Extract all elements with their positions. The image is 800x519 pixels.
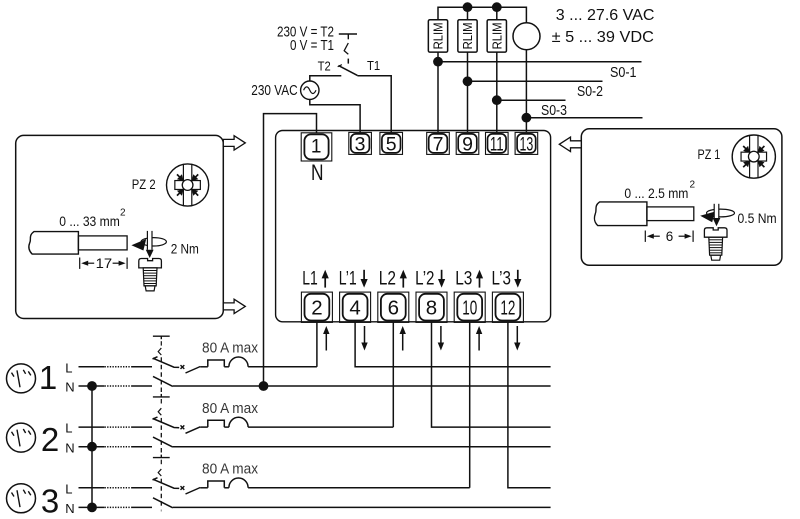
wire: terminal 10 down to L3 [469,322,471,487]
svg-text:8: 8 [426,297,437,320]
svg-text:6: 6 [666,228,674,244]
meter M1 dial [7,364,36,393]
svg-text:S0-2: S0-2 [577,84,603,100]
svg-text:230 VAC: 230 VAC [251,82,297,99]
cable with stripped conductor PZ2 [29,232,79,255]
label L3^ above terminal [455,269,483,290]
breaker linkage bar row1 top [153,335,170,337]
breaker linkage dashes row2 [160,399,162,404]
insert direction arrow PZ2 [131,239,146,251]
svg-text:9: 9 [462,134,473,156]
junction dot S0-1 [433,57,443,67]
terminal screw PZ1 [704,228,727,237]
label L1^ above terminal [302,269,329,290]
circuit breaker Q3 N pole [153,498,173,508]
svg-text:6: 6 [388,297,399,320]
current direction arrow down terminal 8 [440,326,442,344]
svg-text:80 A max: 80 A max [202,462,259,478]
junction dot N2 bus [87,442,97,452]
block arrow PZ2 bottom right [223,299,245,313]
pozidriv bit symbol PZ2 [167,164,209,206]
current direction arrow down terminal 4 [364,326,366,344]
svg-text:3 ... 27.6 VAC: 3 ... 27.6 VAC [556,7,655,24]
label L'3v above terminal [492,269,522,290]
svg-text:L: L [65,421,72,436]
switch S1 actuator dashed link [344,43,348,54]
current direction arrow up terminal 2 [325,333,327,351]
svg-text:0.5 Nm: 0.5 Nm [738,210,777,226]
svg-text:L’2: L’2 [415,269,434,290]
terminal 9 [456,132,479,155]
svg-text:S0-1: S0-1 [610,65,637,81]
label L'1v above terminal [339,269,368,290]
wire: RLIM2 to terminal 9 [467,52,469,133]
wire L3 from breaker to terminal 10 [248,487,470,489]
switch S1 manual actuator bar [339,33,357,35]
svg-text:± 5 ... 39 VDC: ± 5 ... 39 VDC [552,29,654,46]
svg-text:L3: L3 [455,269,472,290]
supply source circle U1 [513,23,540,50]
junction dot N3 bus [87,503,97,513]
AC source G1 230VAC [301,81,319,99]
screwdriver torque symbol PZ1 [707,209,735,217]
svg-text:3: 3 [355,134,366,156]
svg-text:N: N [65,501,74,516]
wire S0-2 line [468,80,603,82]
svg-text:L1: L1 [302,269,318,290]
block arrow PZ1 left [559,137,581,151]
info box PZ1 [581,129,782,265]
wire L row2 from meter [79,426,105,428]
info box PZ2 [16,135,224,318]
junction dot S0-3 [492,95,502,105]
dimension 17 mm strip length [79,258,81,269]
terminal 8 [416,292,447,322]
svg-text:L: L [65,360,72,375]
svg-text:L’1: L’1 [339,269,357,290]
circuit breaker Q1 L pole 80A [153,358,179,367]
svg-text:T1: T1 [367,58,380,73]
wire N3 from breaker to load [173,506,551,508]
terminal 12 [492,292,523,322]
breaker linkage dashes row1 [160,341,162,345]
svg-text:L’3: L’3 [492,269,511,290]
svg-text:T2: T2 [318,59,331,74]
terminal 1 [301,133,332,161]
svg-text:0 ... 2.5 mm: 0 ... 2.5 mm [624,185,688,201]
cable with stripped conductor PZ1 [594,202,647,226]
circuit breaker Q3 L pole 80A [153,479,179,488]
meter device main box [276,131,551,322]
label 0...2.5 mm2 [624,180,695,202]
junction dot top bus / RLIM2 [463,2,473,12]
switch S1 contact lever [338,65,342,67]
wire S0 common line [526,117,642,119]
terminal 7 [427,132,450,155]
svg-text:2 Nm: 2 Nm [171,241,199,256]
svg-text:4: 4 [349,297,360,320]
svg-text:0 V = T1: 0 V = T1 [290,37,334,54]
label L2^ above terminal [379,269,407,290]
svg-text:80 A max: 80 A max [202,401,259,417]
pozidriv bit symbol PZ1 [732,135,775,178]
junction dot N1 bus [87,381,97,391]
wire: terminal 2 down to L1 [316,322,318,366]
svg-text:3: 3 [41,482,59,519]
wire L row3 from meter [79,487,105,489]
svg-text:2: 2 [120,208,126,219]
svg-text:80 A max: 80 A max [202,341,259,357]
svg-text:2: 2 [311,297,322,320]
svg-text:13: 13 [520,134,534,156]
svg-text:N: N [65,380,74,395]
resistor RLIM3 [487,20,506,52]
wire N1 from breaker to load [173,385,551,387]
svg-text:N: N [65,440,74,455]
svg-text:11: 11 [490,134,504,156]
screwdriver torque symbol PZ2 [141,238,166,246]
wire S0-3 line [497,99,566,101]
terminal 3 [349,132,372,155]
wire N bus linking meters [91,386,93,507]
circuit breaker Q1 N pole [153,376,173,386]
svg-text:1: 1 [39,359,57,396]
wire: switch to terminal 5 [357,76,391,133]
svg-text:N: N [311,160,324,185]
terminal 10 [454,292,485,322]
terminal screw PZ2 [139,259,162,268]
svg-text:PZ 1: PZ 1 [698,146,721,162]
svg-text:17: 17 [96,255,113,271]
wire: source bottom to terminal 3 [310,99,360,132]
current direction arrow up terminal 6 [402,333,404,351]
meter M3 dial [7,484,36,513]
svg-text:1: 1 [311,136,322,157]
svg-text:RLIM: RLIM [460,22,475,49]
wire N row1 from meter [79,385,105,387]
insert direction arrow PZ1 [700,212,715,223]
wire L row1 from meter [79,366,105,368]
junction dot top bus / RLIM3 [492,2,502,12]
resistor RLIM2 [458,20,477,52]
svg-text:RLIM: RLIM [431,22,446,49]
wire: top bus connecting RLIM1-RLIM3 and U1 [438,7,526,22]
wire N row3 from meter [79,506,105,508]
junction dot terminal1 wire to N1 [259,381,269,391]
terminal 6 [378,292,409,322]
circuit breaker Q2 N pole [153,437,173,447]
svg-text:5: 5 [386,134,397,156]
svg-text:2: 2 [41,421,59,458]
terminal 5 [380,132,403,155]
wire: terminal 1 to N bus [264,114,317,386]
junction dot S0-2 [463,76,473,86]
wire: terminal 6 down to L2 [392,322,394,427]
breaker linkage bar row1/row2 [153,396,170,398]
wire: U1 to terminal 13 [525,50,527,133]
meter M2 dial [7,423,36,452]
breaker linkage dashes row3 [160,460,162,465]
dimension 6 mm strip length [644,231,646,242]
svg-text:L2: L2 [379,269,396,290]
wire L1 from breaker to terminal 2 [248,366,317,368]
terminal 13 [515,132,538,155]
terminal 11 [486,132,509,155]
wire: RLIM3 to terminal 11 [496,52,498,133]
svg-text:12: 12 [500,297,515,320]
svg-text:2: 2 [690,180,696,191]
wire L2 from breaker to terminal 6 [248,426,393,428]
block arrow PZ2 top right [223,136,245,150]
circuit breaker Q2 L pole 80A [153,419,179,428]
wire N row2 from meter [79,446,105,448]
svg-text:7: 7 [433,134,444,156]
svg-text:S0-3: S0-3 [541,103,567,119]
current direction arrow down terminal 12 [516,326,518,344]
wire: RLIM1 to terminal 7 [437,52,439,133]
resistor RLIM1 [428,20,447,52]
wire: source top to switch [310,76,342,81]
svg-text:PZ 2: PZ 2 [132,176,156,192]
wire: terminal 8 down and right (load L'2) [432,322,551,427]
wire: terminal 12 down and right (load L'3) [508,322,551,487]
svg-text:0 ... 33 mm: 0 ... 33 mm [59,213,120,229]
wire N2 from breaker to load [173,446,551,448]
breaker linkage bar row2/row3 [153,457,170,459]
wire: terminal 4 down and right (load L'1) [355,322,550,366]
junction dot S0 common [522,113,532,123]
svg-text:L: L [65,481,72,496]
label L'2v above terminal [415,269,445,290]
current direction arrow up terminal 10 [478,333,480,351]
terminal 2 [301,292,332,322]
label 0...33 mm2 [59,208,126,230]
wire S0-1 line [438,61,642,63]
terminal 4 [340,292,371,322]
svg-text:10: 10 [462,297,477,320]
svg-text:RLIM: RLIM [489,22,504,49]
